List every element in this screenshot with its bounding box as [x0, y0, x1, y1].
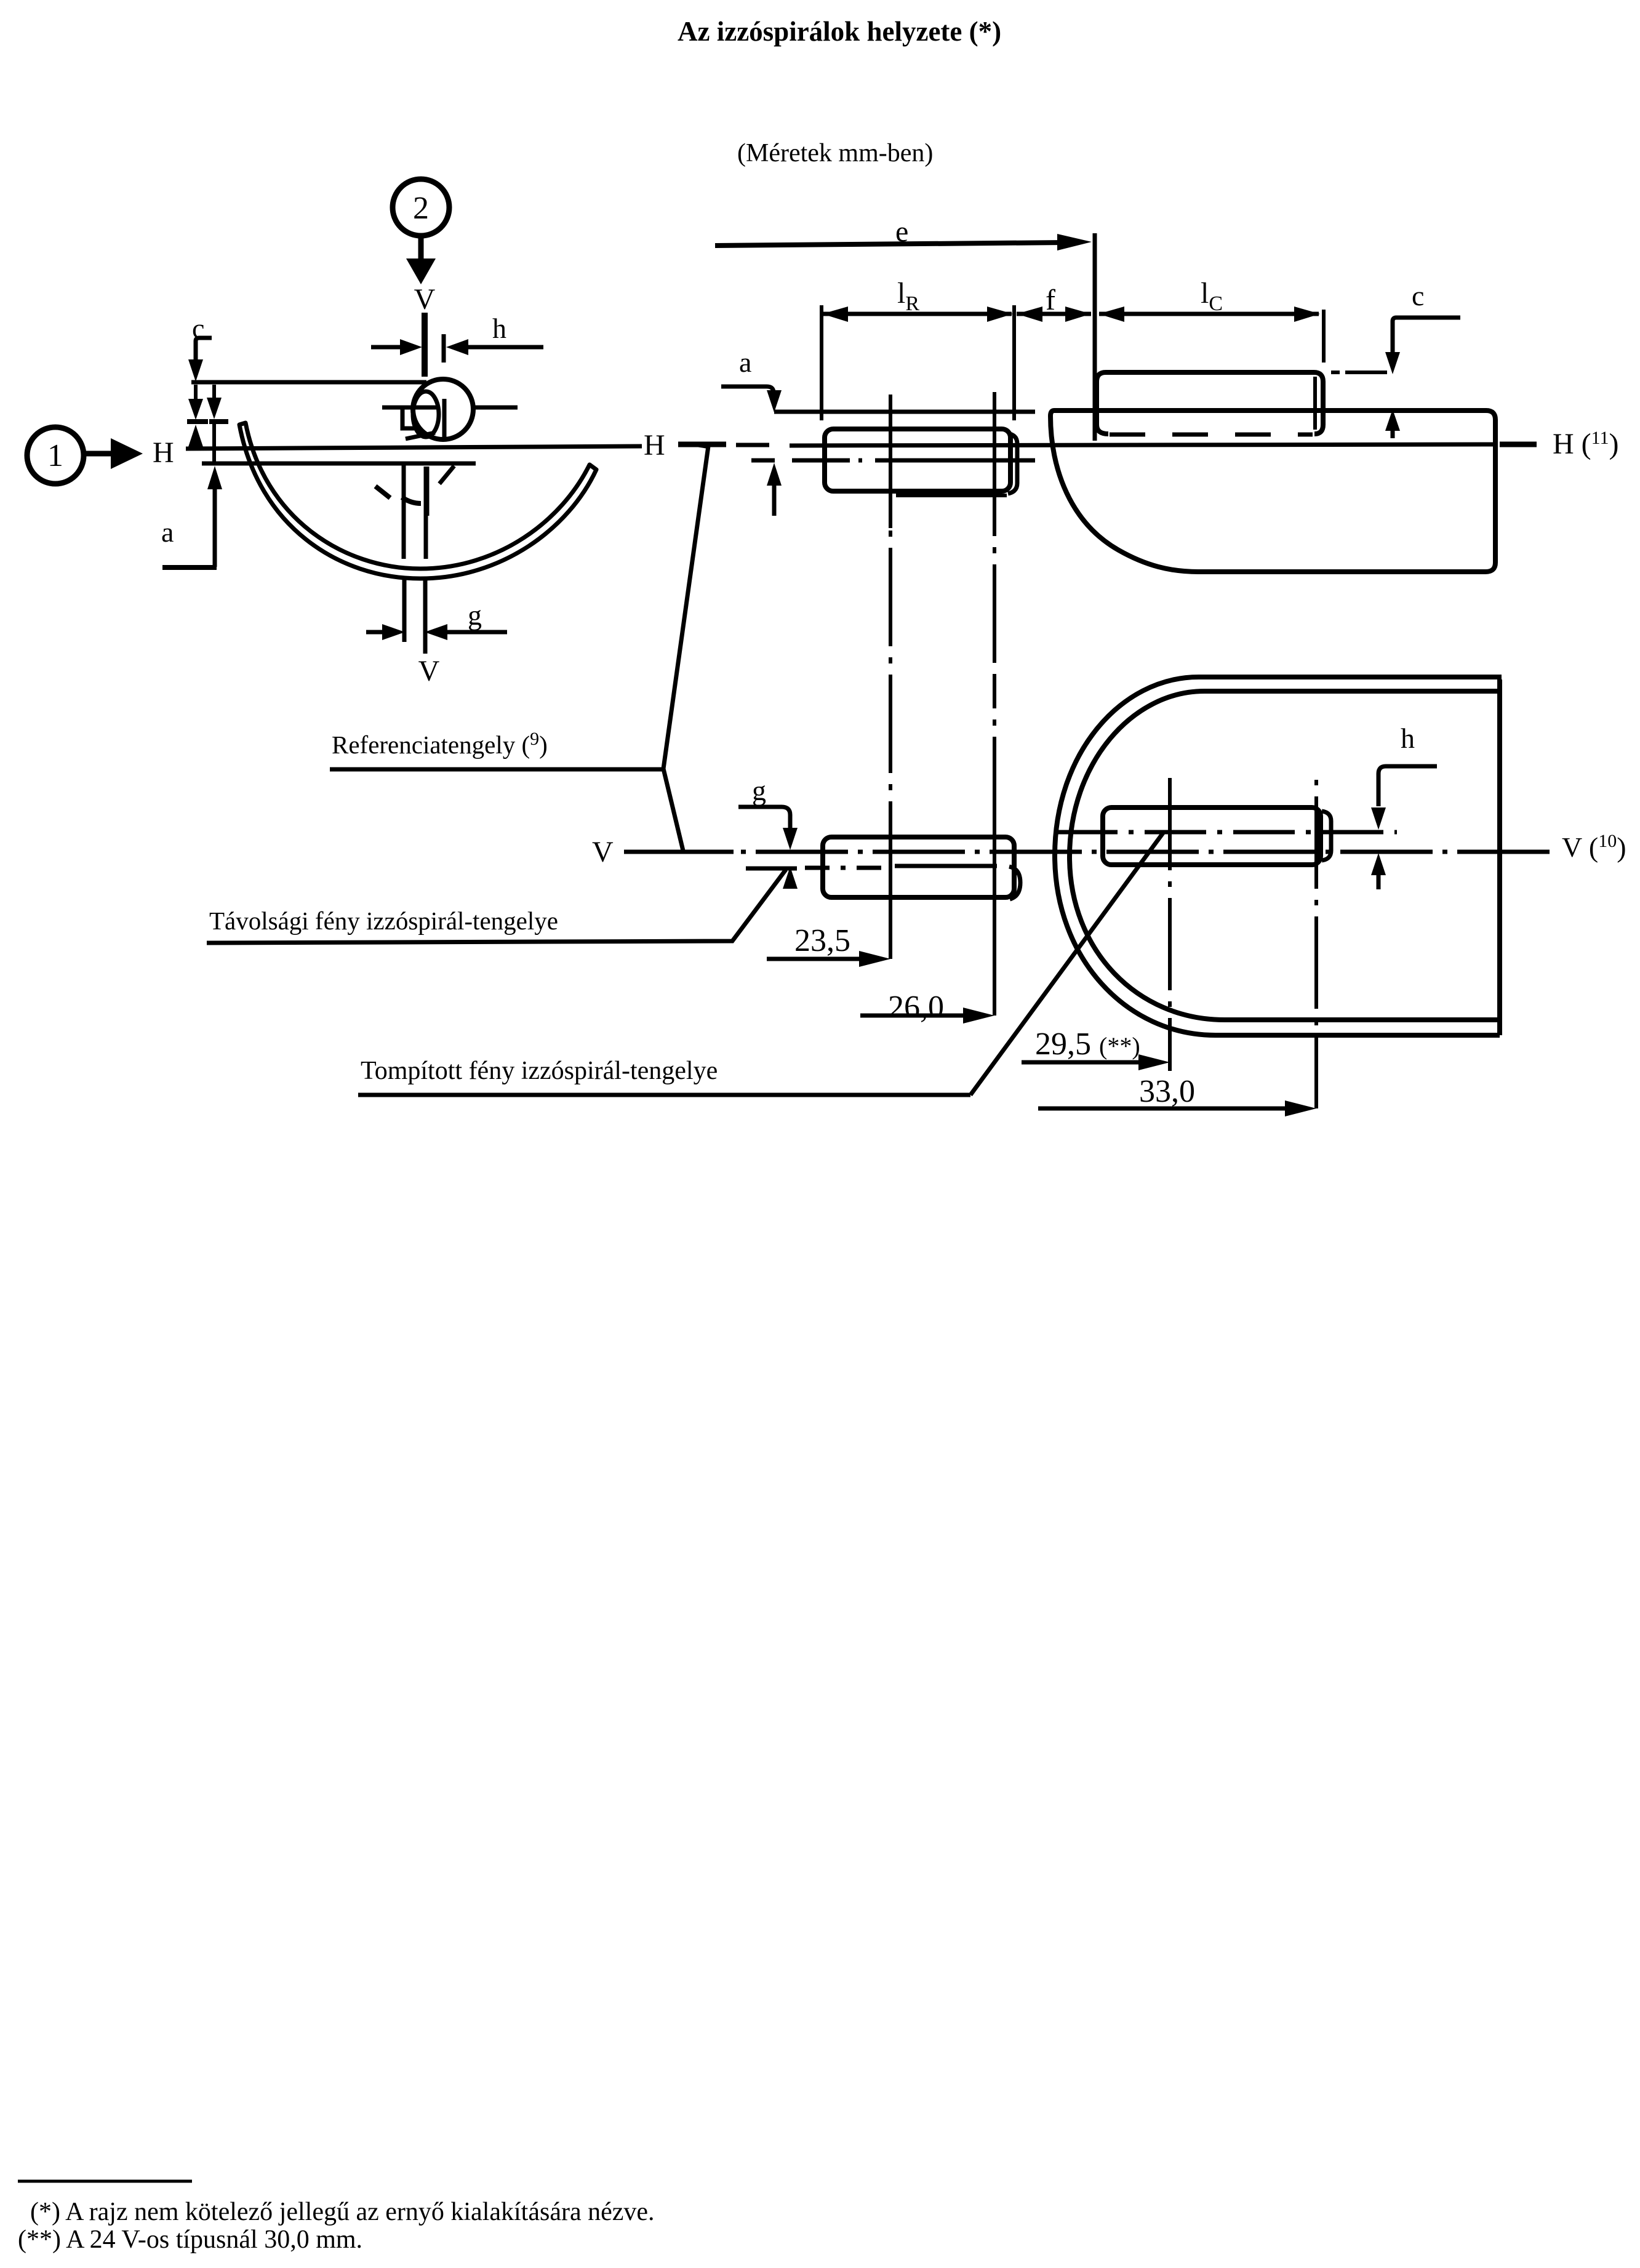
centerline vertical 26.0 [993, 392, 996, 1016]
filament hook [402, 408, 417, 428]
dimension lC [1098, 277, 1324, 363]
filament slanted bar [406, 433, 435, 439]
low-beam filament box (plan view) [1103, 807, 1331, 865]
H axis dash after right H label [678, 442, 726, 447]
svg-text:33,0: 33,0 [1139, 1074, 1195, 1109]
svg-text:(Méretek mm-ben): (Méretek mm-ben) [737, 139, 933, 167]
svg-text:2: 2 [413, 191, 429, 226]
svg-text:g: g [468, 599, 482, 631]
reference top line a [774, 410, 1035, 414]
vertical tick inside bulb [442, 399, 447, 439]
dimension h (bottom figure) [1371, 723, 1437, 889]
V axis upper segment [422, 313, 428, 377]
H axis top right figure [790, 444, 1494, 446]
inner filament ellipse [413, 391, 439, 437]
svg-text:H (11): H (11) [1553, 428, 1619, 460]
broken hint dash right [402, 497, 421, 503]
callout circle 1 [27, 427, 84, 484]
dimension a (top right) [721, 347, 782, 516]
svg-text:V: V [592, 836, 614, 868]
svg-text:h: h [1401, 723, 1415, 754]
H axis end dash [1500, 442, 1537, 447]
bulb outline inner (plan view) [1070, 691, 1500, 1020]
leader fork to reference axis [663, 445, 710, 851]
dimension a (left figure) [161, 466, 222, 567]
small unlabeled dimension pair column 2 [207, 385, 228, 462]
dimension lR [822, 277, 1014, 420]
bulb outline outer (plan view) [1055, 677, 1502, 1035]
bulb outline (side view) [1050, 411, 1495, 572]
filament horizontal bar left [382, 406, 436, 410]
high-beam filament box second outline [896, 433, 1017, 495]
lead wire vertical [425, 467, 430, 516]
dimension h (left figure) [371, 313, 543, 363]
svg-text:(**) A 24 V-os típusnál 30,0 m: (**) A 24 V-os típusnál 30,0 mm. [18, 2226, 362, 2254]
broken hint dash left [375, 486, 390, 498]
small unlabeled dimension pair column 1 [187, 385, 208, 447]
svg-text:a: a [161, 516, 174, 548]
dimension e [715, 215, 1092, 250]
svg-text:29,5 (**): 29,5 (**) [1035, 1027, 1140, 1062]
svg-text:Tompított fény izzóspirál-teng: Tompított fény izzóspirál-tengelye [361, 1057, 718, 1085]
arrow from circle 2 [406, 237, 436, 284]
secondary line below H axis [202, 462, 476, 466]
filament horizontal bar right [471, 406, 518, 410]
high-beam filament box (side view) [825, 429, 1010, 491]
label Referenciatengely [330, 729, 663, 769]
filament axis dash-dot (top figure) [751, 459, 1035, 463]
bulb circle (lamp cross-section) [413, 379, 473, 439]
dimension g (left figure) [366, 599, 507, 640]
dimension c (top right) [1331, 280, 1460, 438]
svg-text:g: g [752, 775, 766, 806]
svg-text:1: 1 [47, 438, 63, 473]
dimension 33,0 [1038, 1074, 1316, 1116]
svg-text:V: V [414, 283, 436, 316]
svg-text:h: h [492, 313, 506, 344]
svg-text:H: H [644, 429, 665, 462]
svg-text:23,5: 23,5 [794, 923, 850, 958]
footnote rule [18, 2180, 192, 2183]
centerline vertical 29.5 [1168, 778, 1172, 1071]
svg-text:H: H [153, 436, 174, 469]
svg-text:Távolsági fény izzóspirál-teng: Távolsági fény izzóspirál-tengelye [209, 907, 558, 935]
extension line e / f boundary [1093, 233, 1097, 441]
low-beam filament axis (plan) [1056, 830, 1397, 835]
callout circle 2 [393, 179, 449, 236]
dimension 26,0 [860, 990, 994, 1025]
svg-text:V: V [418, 655, 440, 687]
label Tompitott feny [358, 832, 1164, 1095]
high-beam filament axis (plan) [746, 868, 892, 868]
svg-text:26,0: 26,0 [888, 990, 944, 1025]
tangent line at bulb top [191, 380, 426, 385]
dimension 29,5 [1022, 1027, 1170, 1070]
dimension c (left figure) [188, 313, 212, 382]
arrow from circle 1 [85, 438, 143, 469]
svg-text:(*) A rajz nem kötelező jelleg: (*) A rajz nem kötelező jellegű az ernyő… [30, 2198, 655, 2226]
svg-text:c: c [1412, 280, 1424, 311]
dimension 23,5 [767, 923, 890, 967]
svg-text:f: f [1046, 284, 1055, 316]
shield bowl crescent [239, 423, 596, 579]
centerline vertical 33.0 [1314, 780, 1318, 1108]
svg-text:Referenciatengely (9): Referenciatengely (9) [332, 729, 548, 759]
svg-text:a: a [739, 347, 751, 378]
high-beam filament box (plan view) [823, 837, 1020, 899]
V axis lower segments [404, 462, 426, 654]
low-beam filament box (side view, dashed bottom) [1097, 372, 1323, 435]
H axis of left figure [186, 446, 642, 449]
svg-text:V (10): V (10) [1562, 831, 1626, 863]
lead wire slant [439, 466, 454, 484]
label Tavolsagi feny [207, 870, 786, 943]
V axis bottom figure [624, 850, 1551, 854]
svg-text:Az izzóspirálok helyzete (*): Az izzóspirálok helyzete (*) [678, 16, 1001, 47]
dimension f [1017, 284, 1091, 322]
centerline vertical 23.5 [889, 395, 892, 959]
dimension g (bottom figure) [738, 775, 798, 889]
